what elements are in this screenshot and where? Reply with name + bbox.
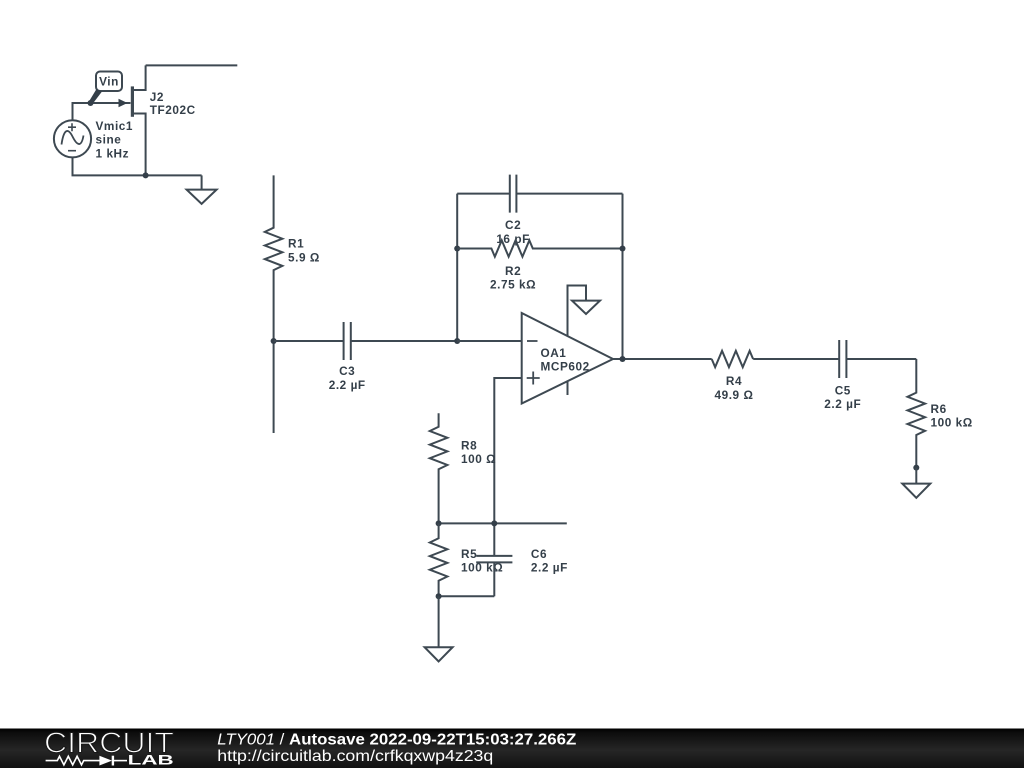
svg-text:C5: C5 (835, 384, 851, 398)
svg-text:49.9 Ω: 49.9 Ω (715, 388, 754, 402)
svg-text:2.75 kΩ: 2.75 kΩ (490, 278, 536, 292)
ground (op-amp supply) (572, 301, 600, 314)
voltage source Vmic1 (54, 119, 133, 160)
svg-text:2.2 µF: 2.2 µF (824, 397, 861, 411)
svg-text:R6: R6 (931, 402, 947, 416)
svg-text:Vin: Vin (99, 75, 119, 89)
wire drain to top rail (146, 64, 238, 66)
wire mid rail (439, 522, 567, 524)
resistor R1 (265, 175, 320, 433)
capacitor C5 (753, 340, 916, 411)
junction dot bottom (436, 593, 442, 599)
svg-text:sine: sine (96, 133, 122, 147)
svg-text:C6: C6 (531, 547, 547, 561)
svg-text:R8: R8 (461, 439, 477, 453)
wire feedback left vertical (456, 194, 458, 341)
wire source top to gate (73, 103, 131, 120)
svg-text:http://circuitlab.com/crfkqxwp: http://circuitlab.com/crfkqxwp4z23q (217, 748, 493, 765)
svg-text:R5: R5 (461, 547, 477, 561)
footer bar (0, 729, 1024, 768)
capacitor C3 (274, 322, 458, 392)
junction dot bottom rail (143, 172, 149, 178)
op-amp OA1 (522, 286, 613, 404)
resistor R6 (908, 359, 973, 468)
svg-text:100 Ω: 100 Ω (461, 452, 496, 466)
svg-text:1 kHz: 1 kHz (96, 146, 130, 160)
junction dot Vin node (88, 100, 94, 106)
resistor R8 (430, 413, 496, 523)
svg-text:5.9 Ω: 5.9 Ω (288, 250, 320, 264)
svg-text:Vmic1: Vmic1 (96, 119, 134, 133)
junction dot mid left (436, 520, 442, 526)
svg-text:LAB: LAB (128, 751, 174, 767)
junction dot mid C6 (491, 520, 497, 526)
svg-text:LTY001 / Autosave 2022-09-22T1: LTY001 / Autosave 2022-09-22T15:03:27.26… (217, 732, 576, 749)
wire source bottom rail (73, 157, 202, 175)
junction dot right/R2 (620, 246, 626, 252)
svg-text:100 kΩ: 100 kΩ (931, 415, 973, 429)
transistor J2 (119, 65, 196, 175)
svg-text:R2: R2 (505, 264, 521, 278)
svg-text:TF202C: TF202C (150, 103, 196, 117)
resistor R5 (430, 523, 503, 596)
resistor R4 (712, 351, 754, 402)
ground (source) (187, 175, 217, 204)
logo CIRCUIT LAB (44, 728, 174, 768)
ground (R6) (902, 468, 930, 498)
wire output (613, 358, 712, 360)
junction dot R1/C3 (271, 338, 277, 344)
svg-text:R4: R4 (726, 374, 742, 388)
node Vin (89, 72, 122, 105)
svg-text:MCP602: MCP602 (541, 360, 590, 374)
capacitor C2 (457, 175, 622, 246)
wire feedback right vertical (622, 194, 624, 359)
resistor R2 (457, 240, 622, 291)
wire minus input (457, 340, 522, 342)
svg-text:2.2 µF: 2.2 µF (531, 561, 568, 575)
ground (R5) (425, 596, 453, 661)
wire plus input (494, 378, 521, 556)
svg-text:2.2 µF: 2.2 µF (329, 378, 366, 392)
junction dot output (620, 356, 626, 362)
capacitor C6 (476, 547, 568, 596)
junction dot left/R2 (454, 246, 460, 252)
svg-text:C2: C2 (505, 218, 521, 232)
svg-text:OA1: OA1 (541, 346, 567, 360)
junction dot left/minus-wire (454, 338, 460, 344)
wire bottom rail (439, 595, 495, 597)
svg-text:R1: R1 (288, 237, 304, 251)
svg-text:C3: C3 (339, 364, 355, 378)
junction dot R6 gnd (913, 465, 919, 471)
